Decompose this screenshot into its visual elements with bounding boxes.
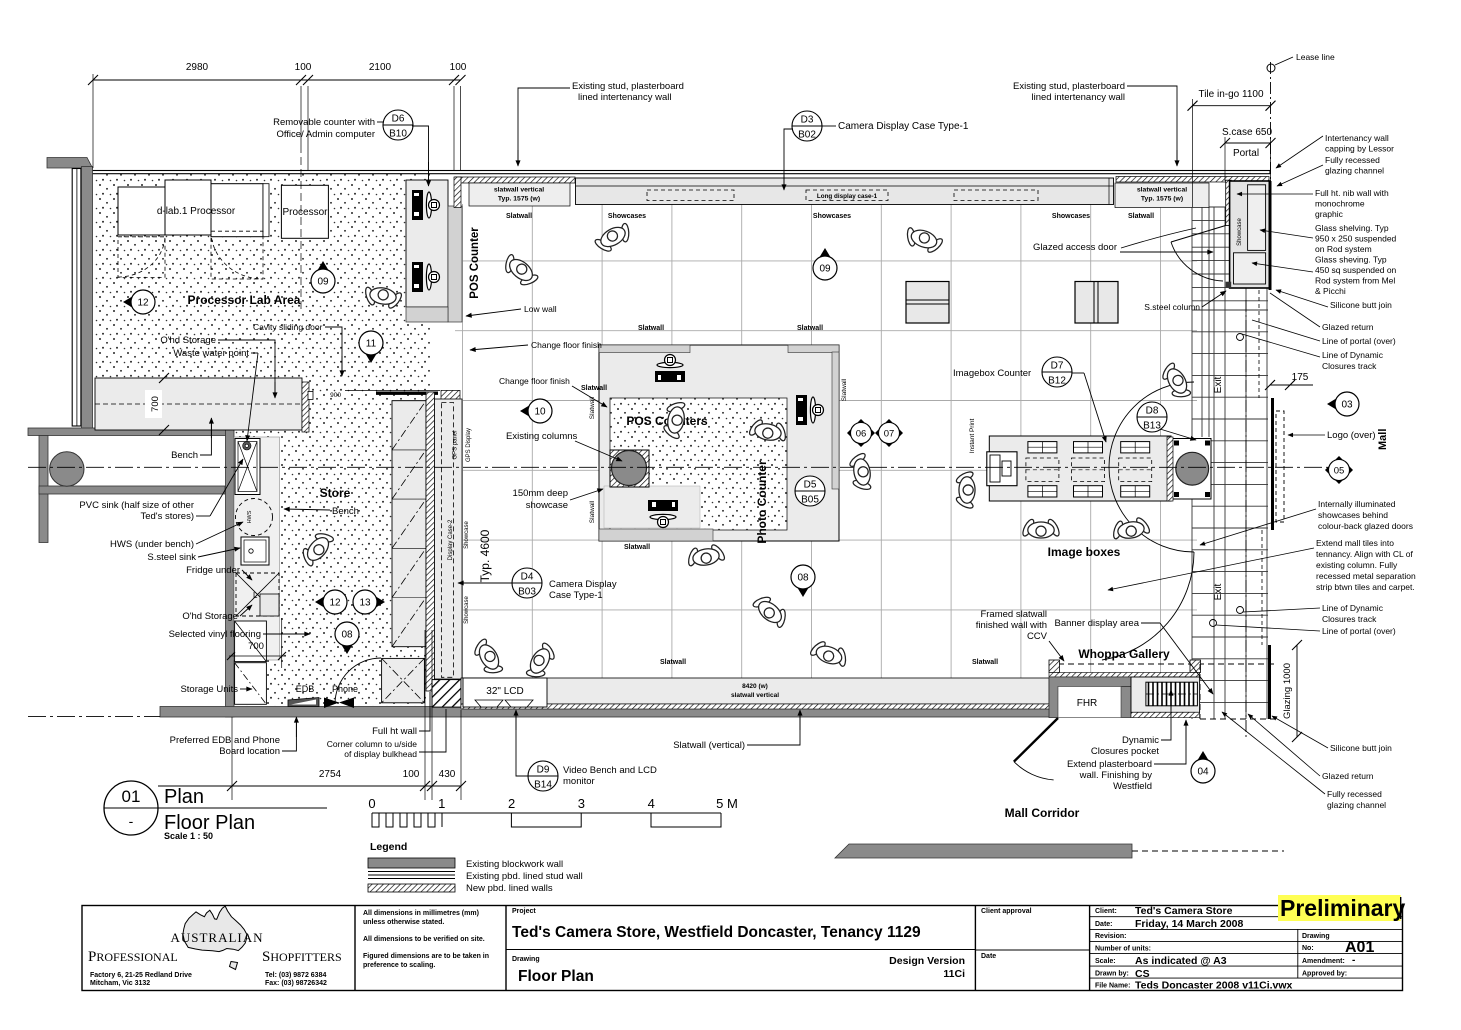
slatwall box left <box>469 183 570 206</box>
svg-text:slatwall vertical: slatwall vertical <box>494 187 544 194</box>
imagebox column (s.steel) <box>1172 439 1211 500</box>
lease line circle <box>1267 64 1275 72</box>
portal showcase <box>1230 181 1271 288</box>
balloon 04 <box>1191 751 1215 783</box>
svg-text:Showcases: Showcases <box>1052 213 1090 220</box>
balloon 09 (floor) <box>813 248 837 280</box>
svg-text:d-lab.1 Processor: d-lab.1 Processor <box>157 206 236 217</box>
leader lease line <box>1275 57 1293 65</box>
svg-text:430: 430 <box>439 769 456 780</box>
lease line (dash-dot vertical, top) <box>1270 62 1272 180</box>
balloon 08 (store) <box>335 622 359 654</box>
svg-text:showcases behind: showcases behind <box>1318 510 1388 520</box>
svg-text:Mitcham, Vic 3132: Mitcham, Vic 3132 <box>90 980 150 987</box>
svg-text:Photo Counter: Photo Counter <box>755 460 769 544</box>
svg-text:-: - <box>129 813 134 829</box>
balloon 03 <box>1327 392 1359 416</box>
balloon 09 (lab) <box>311 261 335 293</box>
svg-text:Whoppa Gallery: Whoppa Gallery <box>1078 647 1170 661</box>
svg-text:showcase: showcase <box>526 500 568 511</box>
mall corridor lower wall <box>835 844 1132 858</box>
svg-text:Camera Display Case Type-1: Camera Display Case Type-1 <box>838 121 969 132</box>
svg-text:Phone: Phone <box>332 684 358 694</box>
shopfront glazing thick line (mid) <box>1271 398 1274 530</box>
alcove left blockwork wall <box>39 436 48 543</box>
svg-text:Glazed access door: Glazed access door <box>1033 242 1117 253</box>
svg-text:Tile in-go 1100: Tile in-go 1100 <box>1198 89 1263 100</box>
mall corridor wall dashed continuation <box>1132 850 1284 852</box>
svg-text:Showcase: Showcase <box>464 595 470 623</box>
svg-text:5 M: 5 M <box>716 796 738 811</box>
svg-text:Floor Plan: Floor Plan <box>518 968 594 985</box>
svg-text:slatwall vertical: slatwall vertical <box>731 692 779 699</box>
diamond 07 <box>875 419 903 447</box>
svg-text:Existing stud, plasterboard: Existing stud, plasterboard <box>1013 81 1125 92</box>
svg-text:POS Counter: POS Counter <box>469 227 481 299</box>
svg-text:monochrome: monochrome <box>1315 199 1365 209</box>
s.case dimension <box>1225 142 1271 144</box>
svg-text:100: 100 <box>295 62 312 73</box>
store west blockwork wall <box>226 428 235 717</box>
display case-2 strip <box>435 399 463 679</box>
leader D3 to display case <box>784 129 793 188</box>
svg-text:04: 04 <box>1197 767 1209 778</box>
svg-text:All dimensions to be verified: All dimensions to be verified on site. <box>363 936 485 943</box>
ohd storage big box (over fridge) <box>260 594 279 616</box>
svg-text:All dimensions in millimetres: All dimensions in millimetres (mm) <box>363 910 479 917</box>
store left fixtures strip <box>234 437 280 660</box>
dynamic closures track circles <box>1237 334 1244 341</box>
svg-text:Approved by:: Approved by: <box>1302 971 1347 978</box>
svg-text:08: 08 <box>341 630 353 641</box>
svg-text:Line of Dynamic: Line of Dynamic <box>1322 603 1384 613</box>
svg-text:01: 01 <box>122 787 141 806</box>
FHR right wall leg <box>1121 687 1131 718</box>
svg-text:Revision:: Revision: <box>1095 933 1127 940</box>
shopfront glazing thick line (bottom) <box>1268 645 1271 719</box>
svg-text:As indicated @ A3: As indicated @ A3 <box>1135 955 1227 967</box>
d-lab.1 processor units <box>118 187 165 235</box>
32" LCD video bench <box>463 678 547 707</box>
rack box (store corner) <box>382 658 425 702</box>
svg-text:700: 700 <box>150 396 161 412</box>
svg-text:unless otherwise stated.: unless otherwise stated. <box>363 919 444 926</box>
svg-text:06: 06 <box>856 429 867 440</box>
svg-text:B03: B03 <box>518 587 536 598</box>
svg-text:Extend plasterboard: Extend plasterboard <box>1067 759 1152 770</box>
S.steel sink <box>241 537 269 565</box>
svg-text:O'hd Storage: O'hd Storage <box>160 335 216 346</box>
svg-text:Low wall: Low wall <box>524 304 557 314</box>
svg-text:Slatwall: Slatwall <box>638 325 664 332</box>
svg-text:1: 1 <box>438 796 445 811</box>
svg-text:Ted's Camera Store: Ted's Camera Store <box>1135 905 1233 917</box>
store door arc <box>335 658 381 704</box>
svg-text:SHOPFITTERS: SHOPFITTERS <box>262 949 342 965</box>
leader removable counter <box>377 121 384 123</box>
svg-text:glazing channel: glazing channel <box>1327 800 1386 810</box>
svg-text:Imagebox Counter: Imagebox Counter <box>953 368 1031 379</box>
svg-text:Date:: Date: <box>1095 921 1113 928</box>
leader low wall <box>466 309 521 316</box>
svg-text:colour-back glazed doors: colour-back glazed doors <box>1318 521 1413 531</box>
right leaders <box>1276 136 1323 168</box>
700 dim (storage) <box>229 655 284 657</box>
svg-text:of display bulkhead: of display bulkhead <box>344 749 417 759</box>
svg-text:Full ht. nib wall with: Full ht. nib wall with <box>1315 188 1389 198</box>
svg-text:GPS panel: GPS panel <box>453 430 459 459</box>
svg-text:Teds Doncaster 2008 v11Ci.vwx: Teds Doncaster 2008 v11Ci.vwx <box>1135 980 1293 992</box>
svg-text:L: L <box>253 591 258 600</box>
svg-text:100: 100 <box>403 769 420 780</box>
bottom blockwork wall <box>160 707 1058 718</box>
svg-text:S.steel sink: S.steel sink <box>147 552 196 563</box>
svg-text:Image boxes: Image boxes <box>1048 545 1121 559</box>
mall floor tile grid <box>1192 207 1268 719</box>
ohd storage box <box>235 621 267 662</box>
svg-text:monitor: monitor <box>563 776 595 787</box>
dynamic closure door swings <box>1109 382 1194 467</box>
balloon 11 <box>359 331 383 363</box>
svg-text:2100: 2100 <box>369 62 392 73</box>
svg-text:Waste water point: Waste water point <box>173 348 249 359</box>
svg-text:Storage Units: Storage Units <box>180 684 238 695</box>
glazed access door leaf and swing <box>1171 225 1226 242</box>
svg-text:slatwall vertical: slatwall vertical <box>1137 187 1187 194</box>
svg-text:Processor Lab Area: Processor Lab Area <box>188 293 301 307</box>
svg-text:Friday, 14 March 2008: Friday, 14 March 2008 <box>1135 918 1244 930</box>
leader existing stud right <box>1127 86 1177 164</box>
island monitor right <box>796 395 824 425</box>
svg-text:Existing pbd. lined stud wall: Existing pbd. lined stud wall <box>466 871 583 882</box>
svg-text:11: 11 <box>366 339 377 350</box>
EDB board <box>288 698 319 707</box>
svg-text:Change floor finish: Change floor finish <box>531 340 602 350</box>
svg-text:450 sq suspended on: 450 sq suspended on <box>1315 265 1397 275</box>
store bench (vertical, east side) <box>392 401 426 647</box>
svg-text:Framed slatwall: Framed slatwall <box>980 609 1047 620</box>
svg-text:Existing columns: Existing columns <box>506 431 578 442</box>
svg-text:S.case 650: S.case 650 <box>1222 127 1272 138</box>
svg-text:Slatwall: Slatwall <box>624 544 650 551</box>
svg-text:finished wall with: finished wall with <box>976 620 1047 631</box>
dashed service zones with door arcs <box>118 237 165 278</box>
svg-text:Banner display area: Banner display area <box>1055 618 1140 629</box>
svg-text:Internally illuminated: Internally illuminated <box>1318 499 1396 509</box>
svg-text:D4: D4 <box>521 572 534 583</box>
entry door leaf (mall corridor) <box>1014 718 1058 762</box>
svg-text:Glazed return: Glazed return <box>1322 771 1374 781</box>
svg-text:Existing blockwork wall: Existing blockwork wall <box>466 859 563 870</box>
svg-text:0: 0 <box>368 796 375 811</box>
west exterior double stud wall <box>72 169 81 427</box>
svg-text:Legend: Legend <box>370 841 407 853</box>
tenancy dash-dot line (lower) <box>1245 300 1247 740</box>
showcase unit 2 <box>1075 282 1118 324</box>
svg-text:700: 700 <box>248 641 264 652</box>
logo (over) dashed rect <box>1276 411 1284 522</box>
svg-text:& Picchi: & Picchi <box>1315 286 1346 296</box>
svg-text:Date: Date <box>981 953 996 960</box>
svg-text:03: 03 <box>1341 400 1353 411</box>
s.steel column (small dark square) <box>1226 282 1232 288</box>
svg-text:existing column. Fully: existing column. Fully <box>1316 560 1398 570</box>
corner column (hatched) at bulkhead <box>432 680 461 708</box>
svg-text:recessed metal separation: recessed metal separation <box>1316 571 1416 581</box>
svg-text:Lease line: Lease line <box>1296 52 1335 62</box>
svg-text:Corner column to u/side: Corner column to u/side <box>327 739 418 749</box>
svg-text:Processor: Processor <box>282 207 328 218</box>
svg-text:Ted's stores): Ted's stores) <box>140 511 194 522</box>
svg-text:B05: B05 <box>801 495 819 506</box>
svg-text:Figured dimensions are to be t: Figured dimensions are to be taken in <box>363 953 489 960</box>
diamond 05 <box>1325 456 1353 484</box>
svg-text:Change floor finish: Change floor finish <box>499 376 570 386</box>
whoppa gallery dashed line <box>1058 663 1278 665</box>
svg-text:Scale 1 : 50: Scale 1 : 50 <box>164 831 213 841</box>
svg-text:Office/ Admin computer: Office/ Admin computer <box>276 129 375 140</box>
svg-text:Line of portal (over): Line of portal (over) <box>1322 626 1396 636</box>
FHR recess <box>1058 687 1121 718</box>
svg-text:graphic: graphic <box>1315 209 1344 219</box>
balloon 12 (store) <box>315 590 347 614</box>
dynamic closures pocket box <box>1131 677 1200 712</box>
svg-text:D5: D5 <box>804 480 817 491</box>
svg-text:Showcase: Showcase <box>464 520 470 548</box>
svg-text:FHR: FHR <box>1077 698 1098 709</box>
new pbd hatched wall strip left <box>455 177 575 183</box>
svg-text:Long display case-1: Long display case-1 <box>817 193 878 200</box>
fridge under (dashed) <box>236 573 279 616</box>
callout D6/B10 <box>383 110 413 140</box>
preliminary stamp <box>1278 895 1401 921</box>
logo: australia map <box>183 906 247 952</box>
svg-text:GPS Display: GPS Display <box>466 428 472 462</box>
700 dim label (bench) <box>145 390 162 418</box>
leader D8 <box>1160 429 1196 440</box>
POS counter by lab <box>406 180 448 307</box>
hatched wall piece above POS counter <box>454 177 461 208</box>
top intertenancy wall (existing stud, double line) <box>84 171 1270 174</box>
svg-text:Full ht wall: Full ht wall <box>372 726 417 737</box>
svg-text:8420 (w): 8420 (w) <box>742 683 768 690</box>
svg-text:D3: D3 <box>801 115 814 126</box>
svg-text:Selected vinyl flooring: Selected vinyl flooring <box>169 629 261 640</box>
svg-text:Ted's Camera Store, Westfield: Ted's Camera Store, Westfield Doncaster,… <box>512 924 921 941</box>
svg-text:B10: B10 <box>389 129 407 140</box>
svg-text:Instant Print: Instant Print <box>969 418 976 453</box>
callout D3/B02 <box>792 111 822 141</box>
glazing 1000 dimension <box>1296 645 1298 737</box>
balloon 13 (store) <box>353 590 385 614</box>
framed slatwall strip <box>1049 673 1200 678</box>
new pbd hatched wall (store/shop divider) <box>426 392 435 691</box>
admin computer 1 <box>412 190 440 220</box>
svg-text:Glazed return: Glazed return <box>1322 322 1374 332</box>
cavity sliding door pocket <box>376 392 438 395</box>
svg-text:D6: D6 <box>392 114 405 125</box>
svg-text:D7: D7 <box>1051 361 1064 372</box>
svg-text:Amendment:: Amendment: <box>1302 958 1345 965</box>
svg-text:Closures track: Closures track <box>1322 614 1377 624</box>
existing column at island (hatched box) <box>610 450 649 487</box>
svg-text:Scale:: Scale: <box>1095 958 1116 965</box>
svg-text:Camera Display: Camera Display <box>549 579 617 590</box>
svg-text:05: 05 <box>1334 466 1345 477</box>
svg-text:Typ. 1575 (w): Typ. 1575 (w) <box>1141 196 1183 203</box>
plan title <box>104 781 158 835</box>
datum centreline <box>28 466 1350 468</box>
svg-text:tennancy. Align with CL of: tennancy. Align with CL of <box>1316 549 1414 559</box>
imagebox counter <box>989 436 1171 501</box>
top dimension line <box>93 79 461 81</box>
svg-text:12: 12 <box>329 598 341 609</box>
svg-text:Dynamic: Dynamic <box>1122 735 1159 746</box>
svg-text:Removable counter with: Removable counter with <box>273 117 375 128</box>
svg-text:Line of portal (over): Line of portal (over) <box>1322 336 1396 346</box>
svg-text:Drawing: Drawing <box>512 956 540 963</box>
svg-text:Tel: (03) 9872 6384: Tel: (03) 9872 6384 <box>265 972 326 979</box>
svg-text:Case Type-1: Case Type-1 <box>549 590 603 601</box>
bottom dimension chain <box>158 785 461 787</box>
svg-text:HWS: HWS <box>247 510 253 523</box>
svg-text:PVC sink (half size of other: PVC sink (half size of other <box>79 500 194 511</box>
people figures <box>361 285 404 312</box>
svg-text:Drawn by:: Drawn by: <box>1095 971 1129 978</box>
svg-text:File Name:: File Name: <box>1095 983 1130 990</box>
svg-text:Client:: Client: <box>1095 908 1117 915</box>
showcase unit 1 <box>906 282 949 324</box>
svg-text:on Rod system: on Rod system <box>1315 244 1372 254</box>
balloon 12 (lab) <box>123 290 155 314</box>
svg-text:New pbd. lined walls: New pbd. lined walls <box>466 883 553 894</box>
island monitor top <box>655 355 685 383</box>
svg-text:capping by Lessor: capping by Lessor <box>1325 144 1394 154</box>
svg-text:B12: B12 <box>1048 376 1066 387</box>
svg-text:Showcase: Showcase <box>1237 217 1243 245</box>
svg-text:11Ci: 11Ci <box>943 968 965 980</box>
new pbd hatched wall strip right <box>1116 177 1269 183</box>
svg-text:Slatwall (vertical): Slatwall (vertical) <box>673 740 745 751</box>
HWS dashed circle <box>236 499 273 536</box>
svg-text:Preliminary: Preliminary <box>1280 895 1405 921</box>
svg-text:3: 3 <box>578 796 585 811</box>
svg-text:Closures track: Closures track <box>1322 361 1377 371</box>
svg-text:950 x 250 suspended: 950 x 250 suspended <box>1315 234 1397 244</box>
svg-text:Design Version: Design Version <box>889 955 965 967</box>
svg-text:B02: B02 <box>798 130 816 141</box>
shopfront glazing thick line (top) <box>1269 181 1272 290</box>
bottom-left datum dash-dot <box>28 715 160 717</box>
slatwall box right <box>1115 183 1209 208</box>
svg-text:Silicone butt join: Silicone butt join <box>1330 743 1392 753</box>
storage units box <box>235 663 267 705</box>
svg-text:Extend mall tiles into: Extend mall tiles into <box>1316 538 1394 548</box>
svg-text:S.steel column: S.steel column <box>1144 302 1200 312</box>
store stippled floor <box>234 392 426 706</box>
svg-text:Glazing 1000: Glazing 1000 <box>1282 663 1293 719</box>
svg-text:Portal: Portal <box>1233 148 1259 159</box>
POS counters island <box>599 345 839 541</box>
svg-text:Exit: Exit <box>1213 583 1224 600</box>
svg-text:Factory 6, 21-25 Redland Drive: Factory 6, 21-25 Redland Drive <box>90 972 192 979</box>
svg-text:Slatwall: Slatwall <box>589 500 596 523</box>
svg-text:Project: Project <box>512 908 536 915</box>
svg-text:900: 900 <box>330 392 341 399</box>
svg-text:Slatwall: Slatwall <box>506 213 532 220</box>
tile in-go dimension <box>1193 105 1271 107</box>
svg-text:Slatwall: Slatwall <box>1128 213 1154 220</box>
lab west blockwork wall <box>82 167 93 431</box>
svg-text:Plan: Plan <box>164 786 204 808</box>
svg-text:Slatwall: Slatwall <box>841 378 848 401</box>
svg-text:Fully recessed: Fully recessed <box>1327 789 1382 799</box>
svg-text:O'hd Storage: O'hd Storage <box>182 611 238 622</box>
svg-text:Typ. 1575 (w): Typ. 1575 (w) <box>498 196 540 203</box>
svg-text:D9: D9 <box>537 765 550 776</box>
svg-text:2: 2 <box>508 796 515 811</box>
callout D5/B05 <box>795 476 825 506</box>
svg-text:2754: 2754 <box>319 769 342 780</box>
bottom display counters band <box>461 678 1049 704</box>
svg-text:Showcases: Showcases <box>813 213 851 220</box>
svg-text:175: 175 <box>1292 372 1309 383</box>
svg-text:EDB: EDB <box>296 684 315 694</box>
svg-text:Closures pocket: Closures pocket <box>1091 746 1159 757</box>
svg-text:Video Bench and LCD: Video Bench and LCD <box>563 765 657 776</box>
instant print machine <box>987 452 1017 486</box>
175 dimension <box>1270 384 1313 386</box>
svg-text:Logo (over): Logo (over) <box>1327 430 1376 441</box>
svg-text:Slatwall: Slatwall <box>660 659 686 666</box>
svg-text:Client approval: Client approval <box>981 908 1032 915</box>
svg-text:Glass sheving. Typ: Glass sheving. Typ <box>1315 255 1387 265</box>
diamond 06 <box>847 419 875 447</box>
svg-text:Exit: Exit <box>1213 376 1224 393</box>
svg-text:Line of Dynamic: Line of Dynamic <box>1322 350 1384 360</box>
svg-text:strip btwn tiles and carpet.: strip btwn tiles and carpet. <box>1316 582 1415 592</box>
alcove column <box>50 452 84 486</box>
svg-text:CCV: CCV <box>1027 631 1048 642</box>
svg-text:-: - <box>1352 955 1355 966</box>
callout D9/B14 <box>528 761 558 791</box>
alcove top blockwork wall <box>28 428 232 436</box>
svg-text:09: 09 <box>317 277 329 288</box>
long display case band <box>576 178 1114 205</box>
svg-text:Westfield: Westfield <box>1113 781 1152 792</box>
svg-text:Intertenancy wall: Intertenancy wall <box>1325 133 1389 143</box>
top-left exterior wall stub <box>47 158 93 169</box>
shop floor tile grid <box>455 204 1197 706</box>
portal nib wall (hatched) <box>1226 180 1232 225</box>
svg-text:Cavity sliding door: Cavity sliding door <box>253 322 323 332</box>
svg-text:Silicone butt join: Silicone butt join <box>1330 300 1392 310</box>
svg-text:Rod system from Mel: Rod system from Mel <box>1315 276 1395 286</box>
svg-text:glazing channel: glazing channel <box>1325 166 1384 176</box>
svg-text:lined intertenancy wall: lined intertenancy wall <box>578 92 671 103</box>
processor lab stippled floor <box>94 174 430 392</box>
long display case-1 dashed unit <box>647 190 734 201</box>
svg-text:150mm deep: 150mm deep <box>513 488 568 499</box>
svg-text:No:: No: <box>1302 945 1314 952</box>
svg-text:Showcases: Showcases <box>608 213 646 220</box>
svg-text:D8: D8 <box>1146 406 1159 417</box>
svg-text:Mall Corridor: Mall Corridor <box>1005 806 1080 820</box>
scale bar <box>372 813 721 827</box>
svg-text:Glass shelving. Typ: Glass shelving. Typ <box>1315 223 1389 233</box>
callout D7/B12 <box>1042 357 1072 387</box>
svg-text:Board location: Board location <box>219 746 280 757</box>
